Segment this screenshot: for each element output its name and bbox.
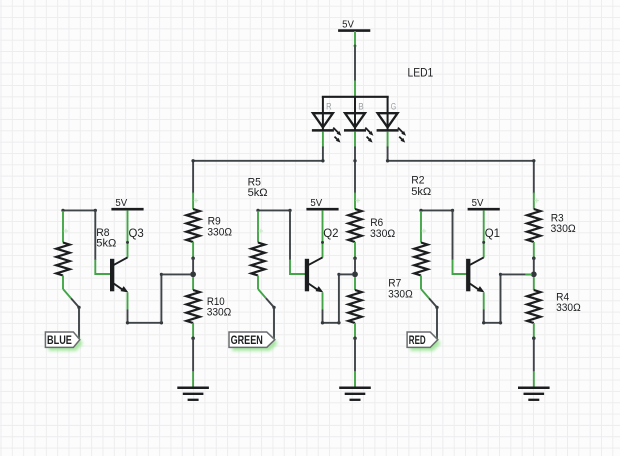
svg-text:5V: 5V bbox=[115, 198, 127, 209]
svg-text:5kΩ: 5kΩ bbox=[248, 187, 268, 199]
svg-text:Q2: Q2 bbox=[323, 226, 338, 240]
svg-text:5kΩ: 5kΩ bbox=[411, 186, 431, 198]
svg-text:330Ω: 330Ω bbox=[551, 223, 577, 235]
svg-text:330Ω: 330Ω bbox=[207, 307, 232, 319]
svg-text:B: B bbox=[358, 102, 364, 112]
svg-text:330Ω: 330Ω bbox=[370, 228, 396, 240]
svg-text:5V: 5V bbox=[342, 19, 354, 30]
svg-text:330Ω: 330Ω bbox=[207, 227, 232, 239]
svg-text:GREEN: GREEN bbox=[231, 334, 263, 347]
svg-text:R: R bbox=[326, 102, 332, 112]
svg-text:R2: R2 bbox=[411, 175, 424, 187]
svg-text:330Ω: 330Ω bbox=[556, 302, 581, 314]
svg-text:BLUE: BLUE bbox=[47, 334, 72, 347]
svg-text:Q3: Q3 bbox=[129, 226, 145, 240]
svg-text:5V: 5V bbox=[472, 198, 484, 209]
svg-text:5V: 5V bbox=[310, 198, 322, 209]
svg-text:LED1: LED1 bbox=[408, 65, 434, 79]
svg-text:RED: RED bbox=[409, 334, 426, 347]
svg-text:5kΩ: 5kΩ bbox=[96, 238, 116, 250]
svg-text:Q1: Q1 bbox=[485, 226, 500, 240]
svg-text:330Ω: 330Ω bbox=[388, 288, 413, 300]
svg-text:G: G bbox=[391, 102, 397, 112]
